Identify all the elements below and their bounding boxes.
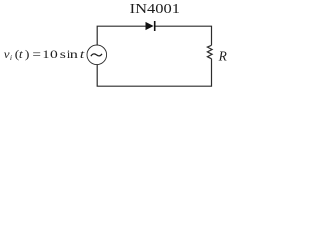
svg-text:IN4001: IN4001	[130, 2, 180, 16]
wire right-bottom: resistor to bottom rail	[97, 59, 211, 86]
wire top-left: source top to diode anode	[97, 26, 145, 45]
svg-text:=: =	[32, 47, 41, 61]
AC source sine symbol	[91, 54, 102, 56]
svg-text:s: s	[60, 48, 66, 61]
svg-text:R: R	[218, 49, 227, 64]
resistor R zigzag	[207, 45, 212, 59]
wire top-right: diode cathode to resistor top	[156, 26, 212, 45]
svg-text:t: t	[80, 49, 86, 62]
diode D1 cathode bar	[154, 21, 156, 31]
svg-text:t: t	[19, 48, 23, 61]
svg-text:i: i	[10, 53, 12, 62]
svg-text:1: 1	[42, 47, 49, 61]
diode D1 IN4001 triangle	[146, 22, 154, 30]
AC source V1 circle	[87, 45, 107, 65]
svg-text:): )	[25, 48, 30, 61]
svg-text:n: n	[70, 48, 78, 61]
svg-text:0: 0	[50, 48, 58, 61]
label vi(t)=10sin t	[4, 47, 86, 62]
